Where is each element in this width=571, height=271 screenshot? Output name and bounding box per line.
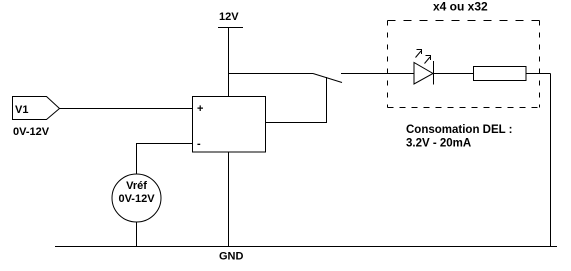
svg-text:GND: GND [219,251,244,263]
ground rail GND [55,247,557,263]
svg-text:+: + [197,103,203,115]
wire op-amp - input to Vref [137,144,193,175]
wire Vref to ground rail [136,222,138,247]
svg-text:-: - [197,138,201,150]
wire op-amp V- pin to ground rail [228,152,230,247]
power rail 12V [218,11,243,28]
wire 12V rail to switch hinge [229,73,314,75]
svg-text:Consomation DEL :: Consomation DEL : [406,124,512,136]
wire 12V rail down to op-amp V+ pin [228,28,230,97]
wire switch to LED [341,73,414,75]
svg-text:0V-12V: 0V-12V [118,193,155,205]
diode LED D1 [414,50,434,85]
source Vref circle [112,174,161,222]
svg-text:12V: 12V [219,11,239,23]
wire op-amp output loop to switch [266,77,327,123]
op-amp U1 comparator box [193,97,266,153]
svg-text:3.2V - 20mA: 3.2V - 20mA [406,138,471,150]
wire LED to resistor [434,73,474,75]
svg-text:0V-12V: 0V-12V [13,126,50,138]
svg-text:Vréf: Vréf [126,180,147,192]
wire V1 to op-amp + input [60,108,193,110]
node V1 input tag [13,97,60,120]
wire right side down to ground rail [550,74,552,247]
svg-text:V1: V1 [15,104,28,116]
switch SW1 blade [313,74,342,83]
wire resistor to right drop [526,73,551,75]
resistor R1 [474,67,527,81]
dashed block x4 ou x32 [388,0,540,108]
svg-text:x4 ou x32: x4 ou x32 [433,0,488,14]
